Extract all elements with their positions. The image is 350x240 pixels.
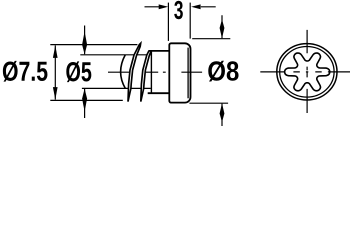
arrowhead 3 right <box>191 4 201 9</box>
arrowhead Ø7.5 down <box>53 87 58 100</box>
thread crest blade 1 <box>128 43 141 101</box>
extension line head left <box>167 3 169 41</box>
head chamfer line <box>187 48 189 99</box>
head inner circle <box>280 47 334 98</box>
arrowhead Ø8 down <box>220 22 225 39</box>
arrowhead Ø7.5 up <box>53 45 58 58</box>
dimension line Ø5 (outside arrows shaft) <box>84 26 86 119</box>
extension line core bottom <box>82 87 151 89</box>
dimension line Ø7.5 <box>54 45 56 99</box>
centerline (side view) <box>108 71 202 73</box>
arrowhead Ø8 up <box>220 103 225 120</box>
centerline horizontal (end view) <box>260 71 350 73</box>
mask blade2 overhang <box>144 39 162 51</box>
arrowhead Ø5 bottom (long wedge) <box>82 89 87 109</box>
dimension line Ø8 (outside arrows shaft) <box>221 15 223 126</box>
extension line core top <box>80 54 151 56</box>
centerline vertical (end view) <box>306 30 308 113</box>
thread crest blade 2 <box>141 43 154 101</box>
screw tip arc <box>121 55 126 89</box>
extension line head bottom (Ø8) <box>189 102 228 104</box>
arrowhead 3 left <box>159 4 169 9</box>
shank bottom line <box>148 92 170 94</box>
dimension line 3 <box>145 6 216 8</box>
label 3 <box>174 1 183 19</box>
arrowhead Ø5 top (long wedge) <box>82 35 87 55</box>
shank top line <box>149 50 170 52</box>
label Ø7.5 <box>3 61 48 82</box>
label Ø8 <box>208 61 238 82</box>
label Ø5 <box>66 61 91 82</box>
extension line OD top <box>50 44 137 46</box>
extension line head top (Ø8) <box>192 38 230 40</box>
head outline <box>169 43 190 102</box>
head outer circle <box>277 44 337 100</box>
thread end vertical <box>150 51 152 93</box>
extension line OD bottom <box>50 99 123 101</box>
extension line head right <box>189 3 191 39</box>
torx recess star <box>285 53 330 91</box>
